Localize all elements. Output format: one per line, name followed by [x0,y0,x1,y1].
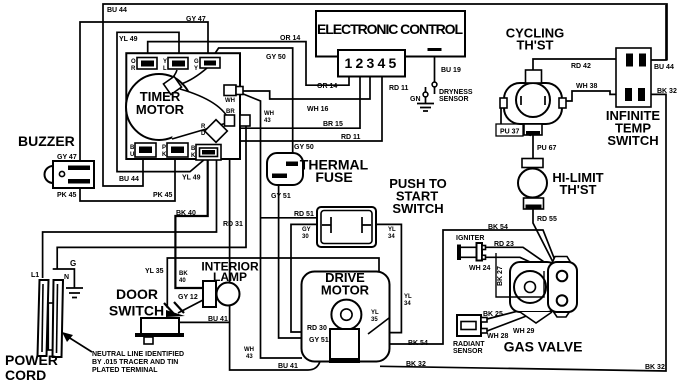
gas valve terminal bottom [557,295,568,306]
svg-text:ELECTRONIC CONTROL: ELECTRONIC CONTROL [317,21,463,37]
svg-text:MOTOR: MOTOR [136,102,185,117]
svg-text:WH 28: WH 28 [487,333,509,340]
svg-text:GY 47: GY 47 [186,16,206,23]
svg-text:BK: BK [179,271,188,277]
timer motor box [126,53,250,160]
svg-text:WH 29: WH 29 [513,328,535,335]
svg-text:BUZZER: BUZZER [18,133,75,149]
svg-text:B: B [191,146,196,152]
svg-text:BK 32: BK 32 [645,364,665,371]
igniter [457,243,486,261]
svg-text:RD 55: RD 55 [537,216,557,223]
wire RD30: push-to-start left to drive motor [291,224,331,332]
svg-text:GY 50: GY 50 [266,54,286,61]
wire GY12: door switch to lamp [178,300,203,313]
svg-text:RD 30: RD 30 [307,325,327,332]
svg-text:OR 14: OR 14 [317,83,337,90]
timer terminal WH [224,85,236,96]
wire YL49: timer YL terminal loop to BK terminal [117,32,205,171]
svg-text:WH 38: WH 38 [576,83,598,90]
svg-text:U: U [130,152,134,158]
svg-text:12345: 12345 [345,55,400,71]
svg-text:BK 27: BK 27 [497,266,504,286]
svg-text:R: R [131,66,136,72]
infinite temp switch [616,48,651,107]
svg-text:YL 49: YL 49 [182,175,201,182]
svg-text:POWER: POWER [5,352,58,368]
svg-text:GAS VALVE: GAS VALVE [504,339,583,355]
ground symbol power cord [66,288,83,298]
svg-text:O: O [131,59,136,65]
svg-text:TH'ST: TH'ST [516,38,553,53]
svg-text:SWITCH: SWITCH [109,303,164,319]
wire PU67: cycling bottom to hi-limit top [532,135,534,159]
svg-text:BU 41: BU 41 [208,316,228,323]
svg-text:FUSE: FUSE [315,169,352,185]
wire WH43: timer WH terminal to drive motor [238,92,302,358]
door switch [135,302,185,344]
svg-text:YL: YL [388,227,396,233]
wire BK25: radiant sensor top prong to valve bottom terminal [487,301,557,319]
gas valve top tab [552,257,571,264]
svg-text:34: 34 [404,301,411,307]
svg-text:B: B [130,145,135,151]
svg-text:BU 41: BU 41 [278,363,298,370]
timer terminal BR square [225,115,235,126]
svg-text:P: P [162,145,166,151]
svg-text:WH 16: WH 16 [307,106,329,113]
svg-text:BK 54: BK 54 [408,340,428,347]
wire WH24: igniter lower to gas valve [485,257,556,274]
wire GY51: thermal fuse bottom to drive motor [279,178,331,338]
hi-limit thermostat [518,159,547,210]
svg-text:SWITCH: SWITCH [607,133,658,148]
power cord blade N [53,280,64,357]
gas valve bottom tab [553,311,570,317]
wire PU37: cycling left tab loop [500,108,502,124]
timer terminal PK [167,143,188,157]
svg-text:43: 43 [264,118,271,124]
svg-text:K: K [191,153,196,159]
svg-text:BK 40: BK 40 [176,210,196,217]
svg-text:RD 11: RD 11 [341,134,361,141]
drive motor [302,272,390,363]
svg-text:WH 24: WH 24 [469,265,491,272]
wire BU44: timer BU terminal to top border to infinite temp switch [103,4,667,186]
svg-text:CORD: CORD [5,367,46,383]
svg-text:YL: YL [371,310,379,316]
svg-text:LAMP: LAMP [213,270,247,284]
wire RD31: timer RD diamond down to power cord L1 [43,141,217,278]
svg-text:IGNITER: IGNITER [456,235,484,242]
svg-text:BU 44: BU 44 [654,64,674,71]
dryness sensor connector circles [423,82,437,103]
svg-text:DOOR: DOOR [116,286,158,302]
timer terminal BU [135,143,156,157]
gas valve body [510,262,557,312]
wire BK54: drive motor to gas valve top terminal [390,230,558,344]
svg-text:BR 15: BR 15 [323,121,343,128]
timer terminal BK [196,145,221,161]
wire RD23: igniter to gas valve top terminal [485,247,557,271]
wire RD42: cycling thermostat top to infinite switch top [533,59,650,70]
svg-text:BK 54: BK 54 [488,224,508,231]
svg-text:NEUTRAL LINE IDENTIFIED: NEUTRAL LINE IDENTIFIED [92,351,184,358]
svg-text:RD 42: RD 42 [571,63,591,70]
wire RD51: branch to push-to-start left contact [261,218,331,222]
svg-text:GY 12: GY 12 [178,294,198,301]
wire WH28: radiant sensor bottom prong to valve bottom terminal [487,304,558,331]
cycling thermostat [500,70,566,135]
power cord blade L1 [38,280,49,356]
wire PK45: buzzer bottom to timer PK terminal [80,157,175,201]
svg-text:L: L [163,66,167,72]
wire BU44 right: infinite switch top terminal to top border [651,5,666,60]
wire BK40: timer BK terminal to interior lamp [175,160,207,288]
svg-text:TH'ST: TH'ST [559,182,596,197]
electronic control terminal box 1 2 3 4 5 [338,50,405,77]
timer terminal OR [137,58,157,70]
svg-text:MOTOR: MOTOR [321,283,370,298]
svg-text:BU 44: BU 44 [119,176,139,183]
wire GY50: timer GY terminal to thermal fuse top [210,48,293,162]
wire RD11: control terminal 4 to timer RD diamond [217,77,383,142]
wire YL: door switch YL35 long run to YL34 drive motor [167,258,379,308]
wire RD55: hi-limit bottom to gas valve top terminal [533,209,556,268]
svg-text:GY 47: GY 47 [57,154,77,161]
ground bracket G near power cord [53,269,75,288]
dryness sensor terminal bar [428,48,442,51]
power cord middle blade [48,303,53,350]
svg-text:40: 40 [179,278,186,284]
wire BK32: infinite switch bottom terminal down right side and bottom [380,94,666,371]
svg-text:GN: GN [410,96,421,103]
ground symbol dryness sensor [417,104,434,112]
svg-text:GY 50: GY 50 [294,144,314,151]
wire OR14: control terminal 1 to timer OR terminal [148,42,349,86]
svg-text:N: N [64,274,69,281]
svg-text:RADIANT: RADIANT [453,341,485,348]
svg-text:G: G [194,59,199,65]
svg-text:PK 45: PK 45 [57,192,77,199]
timer terminal GY [200,58,220,69]
svg-text:RD 31: RD 31 [223,221,243,228]
gas valve solenoid circle [514,271,546,303]
svg-text:GY 51: GY 51 [271,193,291,200]
svg-text:BR: BR [226,109,235,115]
gas valve [496,253,577,323]
svg-text:BK 25: BK 25 [483,311,503,318]
neutral note arrow [65,335,92,352]
svg-text:BK 32: BK 32 [406,361,426,368]
svg-text:30: 30 [302,234,309,240]
wire BR15: control terminal 2 to timer BR terminal [235,77,360,129]
timer motor circle [126,74,192,140]
buzzer [45,161,95,188]
timer motor cone [172,89,230,139]
svg-text:PK 45: PK 45 [153,192,173,199]
timer top diamond terminal [163,76,181,94]
svg-text:PU 37: PU 37 [500,129,520,136]
svg-text:WH: WH [264,111,274,117]
svg-text:34: 34 [388,234,395,240]
svg-text:OR 14: OR 14 [280,35,300,42]
svg-text:YL 49: YL 49 [119,36,138,43]
wire BU19: control to dryness sensor [434,51,436,82]
svg-text:WH: WH [225,98,235,104]
svg-text:PLATED TERMINAL: PLATED TERMINAL [92,367,158,374]
svg-text:SWITCH: SWITCH [392,201,443,216]
svg-text:PU 67: PU 67 [537,145,557,152]
svg-text:WH: WH [244,347,254,353]
push to start switch box [317,207,376,247]
timer RD diamond terminal [205,120,228,143]
gas valve terminal top [557,271,568,282]
svg-text:YL 35: YL 35 [145,268,164,275]
wire YL34: push-to-start right contact down to motor [365,224,401,332]
svg-text:SENSOR: SENSOR [439,96,469,103]
svg-text:BU 44: BU 44 [107,7,127,14]
wire WH16: control terminal 3 to timer WH terminal [238,77,370,100]
gas valve bracket loop [496,253,544,297]
svg-text:Y: Y [194,66,198,72]
timer terminal YL [168,58,188,70]
svg-text:BK 32: BK 32 [657,88,677,95]
wire BU41 door switch branch [179,321,230,323]
thermal fuse [267,153,303,185]
interior lamp [203,281,240,307]
svg-text:DRYNESS: DRYNESS [439,89,473,96]
svg-text:GY 51: GY 51 [309,337,329,344]
svg-text:RD 23: RD 23 [494,241,514,248]
svg-text:L1: L1 [31,272,39,279]
radiant sensor [457,315,487,336]
svg-text:BU 19: BU 19 [441,67,461,74]
svg-text:35: 35 [371,317,378,323]
svg-text:Y: Y [163,59,167,65]
svg-text:K: K [162,152,167,158]
svg-text:YL: YL [404,294,412,300]
svg-text:G: G [70,259,76,268]
svg-text:D: D [201,131,206,137]
svg-text:R: R [201,124,206,130]
svg-text:BY .015 TRACER AND TIN: BY .015 TRACER AND TIN [92,359,178,366]
svg-text:RD 51: RD 51 [294,211,314,218]
gas valve terminal plate [548,262,577,312]
svg-text:RD 11: RD 11 [389,85,409,92]
svg-text:43: 43 [246,354,253,360]
electronic control box [316,11,465,57]
wire GY47: buzzer top to timer GY terminal [80,22,208,166]
wire WH38: cycling right tab to infinite switch bottom [564,91,650,101]
wire N neutral: power cord N up and right [57,126,246,269]
svg-text:GY: GY [302,227,311,233]
gas valve lower V tail [520,312,552,323]
wire BU41: timer BR area down to drive motor bottom [230,126,320,370]
svg-text:SENSOR: SENSOR [453,348,483,355]
